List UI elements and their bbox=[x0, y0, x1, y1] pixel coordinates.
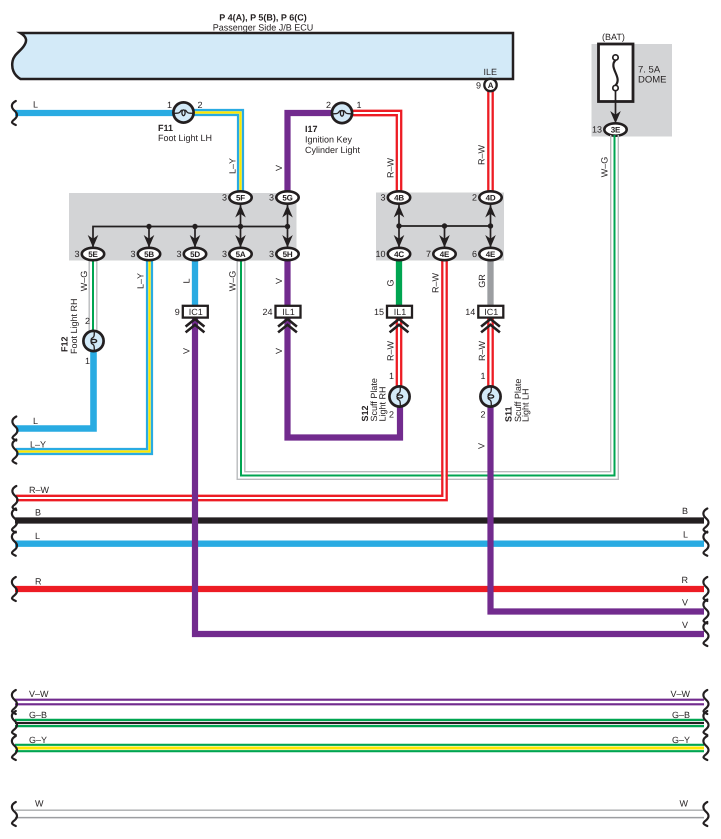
svg-text:6: 6 bbox=[472, 249, 477, 259]
junction block J/B left connector area (gray) bbox=[69, 193, 297, 261]
bulb F11 Foot Light LH bbox=[158, 100, 212, 143]
svg-text:G–B: G–B bbox=[672, 710, 690, 720]
wire bus V-W (violet-white) bbox=[12, 689, 709, 714]
svg-text:L: L bbox=[33, 416, 38, 426]
svg-text:W–G: W–G bbox=[79, 271, 89, 292]
connector 5G bbox=[269, 191, 299, 203]
svg-text:1: 1 bbox=[85, 356, 90, 366]
svg-text:24: 24 bbox=[262, 307, 272, 317]
svg-text:3: 3 bbox=[222, 249, 227, 259]
svg-text:1: 1 bbox=[357, 100, 362, 110]
svg-text:G–Y: G–Y bbox=[29, 735, 47, 745]
svg-text:W–G: W–G bbox=[600, 157, 610, 178]
bulb S11 Scuff Plate Light LH bbox=[480, 371, 530, 422]
svg-text:4D: 4D bbox=[486, 194, 496, 203]
svg-text:L: L bbox=[182, 278, 192, 283]
svg-text:P 4(A), P 5(B), P 6(C): P 4(A), P 5(B), P 6(C) bbox=[219, 13, 307, 23]
wire bus G-Y (green-yellow) bbox=[12, 735, 709, 760]
svg-text:L–Y: L–Y bbox=[30, 440, 46, 450]
svg-text:3: 3 bbox=[269, 249, 274, 259]
bulb I17 Ignition Key Cylinder Light bbox=[305, 100, 362, 155]
svg-text:7: 7 bbox=[426, 249, 431, 259]
wire V I17 pin2 to 5G (violet) bbox=[274, 113, 333, 194]
svg-text:Light RH: Light RH bbox=[378, 386, 388, 421]
svg-text:F11: F11 bbox=[158, 123, 173, 133]
svg-text:9: 9 bbox=[175, 307, 180, 317]
wire W-G from fuse 3E down-left-up to 5A bbox=[228, 135, 619, 479]
svg-text:2: 2 bbox=[198, 100, 203, 110]
svg-text:R: R bbox=[682, 575, 689, 585]
svg-text:W–G: W–G bbox=[228, 271, 238, 292]
connector 4E pin6 bbox=[472, 248, 502, 260]
svg-text:Foot Light LH: Foot Light LH bbox=[158, 133, 212, 143]
svg-text:ILE: ILE bbox=[483, 67, 497, 77]
svg-text:L: L bbox=[35, 531, 40, 541]
svg-text:2: 2 bbox=[389, 410, 394, 420]
svg-text:2: 2 bbox=[472, 193, 477, 203]
svg-text:V: V bbox=[182, 348, 192, 354]
svg-text:5F: 5F bbox=[236, 194, 245, 203]
svg-text:V: V bbox=[477, 443, 487, 449]
svg-text:L: L bbox=[33, 100, 38, 110]
svg-text:IC1: IC1 bbox=[189, 307, 203, 317]
wire L 5D to IC1 bbox=[182, 259, 196, 307]
svg-text:V–W: V–W bbox=[670, 689, 690, 699]
svg-text:R–W: R–W bbox=[29, 485, 50, 495]
svg-text:3: 3 bbox=[74, 249, 79, 259]
svg-text:3: 3 bbox=[176, 249, 181, 259]
svg-text:5D: 5D bbox=[190, 250, 200, 259]
junction block J/B right connector area (gray) bbox=[376, 193, 504, 261]
connector IC1 pin 9 bbox=[175, 306, 208, 318]
wire V S11 pin2 down to right tear bbox=[477, 404, 709, 624]
svg-text:F12: F12 bbox=[60, 336, 70, 352]
svg-text:Foot Light RH: Foot Light RH bbox=[69, 298, 79, 354]
svg-text:G–B: G–B bbox=[29, 710, 47, 720]
svg-text:5E: 5E bbox=[88, 250, 98, 259]
svg-text:R–W: R–W bbox=[477, 144, 487, 165]
wire R-W 4E pin7 down to left tear (bus) bbox=[12, 259, 446, 510]
svg-text:IC1: IC1 bbox=[484, 307, 498, 317]
wire L-Y 5B to left tear bbox=[12, 259, 152, 464]
svg-text:L: L bbox=[683, 530, 688, 540]
svg-text:3: 3 bbox=[130, 249, 135, 259]
svg-text:4C: 4C bbox=[394, 250, 404, 259]
wire L F12 pin1 to left tear bbox=[12, 351, 93, 441]
wire R-W IL1(15) to S12 pin1 bbox=[386, 317, 402, 387]
connector 5D bbox=[176, 248, 206, 260]
connector 5E bbox=[74, 248, 104, 260]
svg-text:3E: 3E bbox=[611, 126, 621, 135]
svg-text:5G: 5G bbox=[282, 194, 292, 203]
svg-text:5B: 5B bbox=[144, 250, 154, 259]
svg-text:R–W: R–W bbox=[386, 157, 396, 178]
wire bus W (white) bbox=[12, 799, 709, 827]
svg-text:4E: 4E bbox=[440, 250, 450, 259]
wire bus L (cyan) bbox=[12, 530, 709, 556]
connector 4B bbox=[380, 191, 410, 203]
svg-text:3: 3 bbox=[380, 193, 385, 203]
wire V IL1(24) to S12 pin2 bbox=[274, 317, 400, 438]
connector IL1 pin 24 bbox=[262, 306, 300, 318]
svg-text:DOME: DOME bbox=[638, 75, 667, 86]
bulb S12 Scuff Plate Light RH bbox=[360, 371, 410, 422]
connector 3E pin 13 bbox=[592, 123, 627, 135]
svg-text:1: 1 bbox=[167, 100, 172, 110]
svg-text:1: 1 bbox=[480, 371, 485, 381]
connector IC1 pin 14 bbox=[465, 306, 503, 318]
wire V 5H to IL1(24) bbox=[274, 259, 288, 307]
svg-text:IL1: IL1 bbox=[282, 307, 295, 317]
wire G 4C to IL1(15) bbox=[386, 259, 400, 307]
connector 4E pin7 bbox=[426, 248, 456, 260]
svg-text:A: A bbox=[488, 81, 494, 90]
junction dots left block bbox=[146, 224, 151, 229]
wire R-W connector A to 4D bbox=[477, 90, 493, 194]
left block internal bus line with junctions bbox=[88, 204, 293, 248]
svg-text:B: B bbox=[682, 506, 688, 516]
wire R-W I17 pin1 to 4B bbox=[352, 111, 401, 194]
svg-text:3: 3 bbox=[222, 193, 227, 203]
svg-text:1: 1 bbox=[389, 371, 394, 381]
wire W-G 5E to F12 pin2 bbox=[79, 259, 97, 332]
connector 5F bbox=[222, 191, 252, 203]
svg-text:G–Y: G–Y bbox=[672, 735, 690, 745]
svg-text:GR: GR bbox=[477, 274, 487, 288]
svg-text:2: 2 bbox=[85, 316, 90, 326]
svg-text:4B: 4B bbox=[394, 194, 404, 203]
svg-text:(BAT): (BAT) bbox=[602, 32, 625, 42]
svg-text:V: V bbox=[682, 598, 688, 608]
svg-text:2: 2 bbox=[326, 100, 331, 110]
fuse 7.5A DOME (BAT) bbox=[592, 32, 673, 137]
connector A pin 9 (ILE) bbox=[476, 79, 497, 91]
svg-text:V: V bbox=[274, 278, 284, 284]
bulb F12 Foot Light RH bbox=[60, 298, 104, 366]
svg-text:10: 10 bbox=[375, 249, 385, 259]
svg-text:9: 9 bbox=[476, 81, 481, 91]
svg-text:V: V bbox=[274, 348, 284, 354]
svg-text:G: G bbox=[386, 279, 396, 286]
svg-text:L–Y: L–Y bbox=[228, 158, 238, 174]
wire bus R (red) bbox=[12, 575, 709, 601]
svg-text:R: R bbox=[35, 577, 42, 587]
connector 5A bbox=[222, 248, 252, 260]
connector 4D bbox=[472, 191, 502, 203]
svg-text:IL1: IL1 bbox=[394, 307, 407, 317]
wire bus G-B (green-black) bbox=[12, 710, 709, 735]
wire fuse to 3E bbox=[615, 91, 617, 121]
svg-text:15: 15 bbox=[374, 307, 384, 317]
svg-text:Ignition Key: Ignition Key bbox=[305, 135, 353, 145]
svg-text:S11: S11 bbox=[504, 406, 514, 422]
svg-text:14: 14 bbox=[465, 307, 475, 317]
wire L to F11 (cyan) with tear bbox=[12, 100, 174, 126]
svg-text:V: V bbox=[274, 165, 284, 171]
svg-text:5H: 5H bbox=[283, 250, 293, 259]
wire bus B (black) bbox=[12, 506, 709, 533]
svg-text:R–W: R–W bbox=[431, 272, 441, 293]
wire R-W IC1(14) to S11 pin1 bbox=[477, 317, 493, 387]
wire L-Y F11 pin2 to 5F bbox=[193, 110, 243, 194]
svg-text:3: 3 bbox=[269, 193, 274, 203]
svg-text:R–W: R–W bbox=[477, 340, 487, 361]
wire V IC1(9) down to right tear bbox=[182, 317, 709, 646]
right block internal bus line with junctions bbox=[394, 204, 496, 248]
wire GR 4E to IC1(14) bbox=[477, 259, 491, 307]
svg-text:L–Y: L–Y bbox=[136, 273, 146, 289]
connector 5H bbox=[269, 248, 299, 260]
connector 4C bbox=[375, 248, 410, 260]
svg-text:5A: 5A bbox=[236, 250, 246, 259]
svg-text:W: W bbox=[35, 799, 44, 809]
svg-text:2: 2 bbox=[480, 410, 485, 420]
svg-text:Light LH: Light LH bbox=[521, 388, 531, 422]
svg-text:W: W bbox=[680, 799, 689, 809]
svg-text:4E: 4E bbox=[486, 250, 496, 259]
svg-text:13: 13 bbox=[592, 125, 602, 135]
Passenger Side J/B ECU bar P4(A) P5(B) P6(C) bbox=[12, 13, 513, 80]
svg-text:V: V bbox=[682, 620, 688, 630]
svg-text:R–W: R–W bbox=[386, 340, 396, 361]
svg-text:Cylinder Light: Cylinder Light bbox=[305, 145, 361, 155]
svg-text:V–W: V–W bbox=[29, 689, 49, 699]
svg-text:I17: I17 bbox=[305, 124, 318, 134]
connector 5B bbox=[130, 248, 160, 260]
svg-text:B: B bbox=[35, 508, 41, 518]
connector IL1 pin 15 bbox=[374, 306, 412, 318]
svg-text:Passenger Side J/B ECU: Passenger Side J/B ECU bbox=[213, 23, 314, 33]
